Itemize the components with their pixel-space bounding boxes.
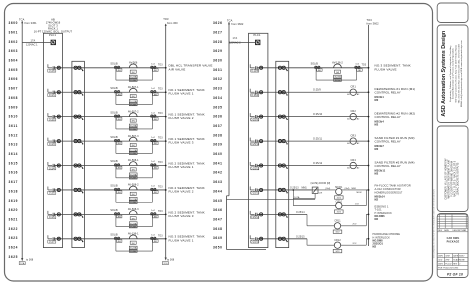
svg-text:SOL/B: SOL/B bbox=[110, 87, 118, 90]
svg-text:EMAIL: info@asdsystemsdesign.c: EMAIL: info@asdsystemsdesign.com WEB: ww… bbox=[460, 40, 463, 107]
svg-text:3608: 3608 bbox=[9, 96, 19, 100]
svg-text:[H]: [H] bbox=[336, 72, 339, 74]
svg-text:CR12: CR12 bbox=[334, 239, 341, 242]
contact O:25/12 PLC output point bbox=[250, 162, 263, 170]
svg-text:CONTROL RELAY: CONTROL RELAY bbox=[375, 139, 401, 143]
svg-text:3623: 3623 bbox=[9, 236, 19, 240]
contact O:25/15 PLC output point bbox=[250, 235, 263, 243]
svg-text:[H]: [H] bbox=[132, 145, 135, 147]
svg-text:O:25/10: O:25/10 bbox=[251, 119, 260, 121]
svg-text:TO3: TO3 bbox=[158, 64, 163, 66]
terminal pair TB rung 3628 bbox=[278, 115, 287, 120]
svg-text:C/R: C/R bbox=[319, 192, 323, 194]
svg-text:CKD: CKD bbox=[438, 260, 443, 262]
node wire label O:25/9 bbox=[313, 89, 321, 92]
junction rung 3630 to TO3 rail bbox=[368, 165, 370, 167]
solenoid valve AV-507-1 bbox=[110, 86, 158, 106]
svg-text:P5-102: P5-102 bbox=[445, 264, 451, 266]
svg-text:FLSH: FLSH bbox=[130, 226, 136, 228]
node description rung 3629 bbox=[375, 136, 415, 151]
svg-text:3636: 3636 bbox=[213, 115, 223, 119]
wire left rail bottom arrow to 368 bbox=[19, 258, 34, 265]
relay coil CR12 bbox=[333, 238, 369, 253]
junction rung 3607 to TO3 rail bbox=[165, 238, 167, 240]
solenoid valve AV-507-3 bbox=[110, 135, 158, 155]
svg-text:3620: 3620 bbox=[9, 208, 19, 212]
relay coil MCR1 bbox=[335, 186, 370, 200]
contact O:3/1 PLC output point bbox=[48, 89, 61, 97]
svg-text:3634: 3634 bbox=[213, 96, 223, 100]
svg-text:3641: 3641 bbox=[213, 161, 223, 165]
svg-text:RACK 1 SLOT 3 / RACK 2 SLOT 5: RACK 1 SLOT 3 / RACK 2 SLOT 5 bbox=[453, 160, 456, 197]
terminal pair TB rung 3631 bbox=[278, 188, 287, 193]
svg-text:3637: 3637 bbox=[213, 124, 223, 128]
svg-text:3612: 3612 bbox=[9, 133, 19, 137]
svg-text:O:25/14: O:25/14 bbox=[296, 212, 305, 214]
node description rung 3600 bbox=[169, 64, 213, 72]
svg-text:3607: 3607 bbox=[9, 87, 19, 91]
wire number column 3600-3625 bbox=[9, 21, 19, 259]
contact O:3/6 PLC output point bbox=[48, 211, 61, 219]
svg-text:[H]: [H] bbox=[132, 218, 135, 220]
svg-text:3628: 3628 bbox=[213, 40, 223, 44]
wire jog down to coil CR11 bbox=[307, 214, 334, 225]
wire rung 3632 right ladder bbox=[257, 213, 307, 215]
svg-text:3640: 3640 bbox=[213, 152, 223, 156]
svg-text:3609: 3609 bbox=[9, 105, 19, 109]
solenoid valve AV-507-2 bbox=[110, 110, 158, 130]
svg-text:O:25/15: O:25/15 bbox=[251, 242, 260, 244]
svg-text:3648: 3648 bbox=[213, 227, 223, 231]
node description rung 3630 bbox=[375, 161, 415, 176]
svg-text:FLUSH VALVE 2: FLUSH VALVE 2 bbox=[169, 116, 194, 120]
svg-text:O:3/1: O:3/1 bbox=[49, 95, 56, 97]
node TO3 tick rung 3601 bbox=[158, 89, 163, 91]
fuse F2 right feed bbox=[255, 40, 260, 45]
relay coil CR10 bbox=[335, 190, 369, 214]
terminal pair TB rung 3633 bbox=[278, 237, 287, 242]
svg-text:3635: 3635 bbox=[213, 105, 223, 109]
svg-text:WASTEWATER TREATMENT PLANT: WASTEWATER TREATMENT PLANT bbox=[447, 159, 450, 199]
svg-text:JPW: JPW bbox=[445, 260, 449, 262]
svg-text:TO3: TO3 bbox=[158, 113, 163, 115]
title block company box ASD Automation Systems Design bbox=[437, 25, 468, 123]
junction rung 3605 to TO3 rail bbox=[165, 189, 167, 191]
title block project box bbox=[437, 126, 468, 212]
svg-text:[H]: [H] bbox=[132, 170, 135, 172]
transistor Q1 overload symbol bbox=[312, 187, 336, 199]
wire rung 3626 right ladder bbox=[257, 67, 368, 69]
svg-text:3610: 3610 bbox=[9, 115, 19, 119]
terminal pair TB rung 3630 bbox=[278, 164, 287, 169]
wire right rail MCR controlled offset segment bbox=[227, 196, 267, 250]
svg-text:TO3: TO3 bbox=[158, 186, 163, 188]
wire rung 3627 right ladder bbox=[257, 91, 368, 93]
node description rung 3628 bbox=[375, 112, 416, 127]
PLC rack module label AB 1746-OW16 bbox=[34, 18, 73, 34]
node TO3 tick rung 3600 bbox=[158, 64, 163, 66]
svg-text:CR3: CR3 bbox=[351, 135, 357, 138]
wire rung 3601 left ladder bbox=[54, 91, 166, 93]
op module PLC1 right output card box bbox=[249, 33, 268, 248]
svg-text:120VAC 2: 120VAC 2 bbox=[229, 42, 241, 45]
svg-text:O:3/7: O:3/7 bbox=[49, 242, 56, 244]
svg-text:3629: 3629 bbox=[213, 49, 223, 53]
wire rung 3606 left ladder bbox=[54, 213, 166, 215]
svg-text:3626: 3626 bbox=[213, 21, 223, 25]
node wire label O:25/14 bbox=[296, 212, 305, 214]
svg-text:O:25/13: O:25/13 bbox=[290, 188, 299, 190]
junction rung 3603 to TO3 rail bbox=[165, 140, 167, 142]
node description rung 3604 bbox=[169, 161, 205, 169]
node wire label O:25/15 bbox=[296, 236, 305, 238]
solenoid valve AV-136-1 bbox=[110, 233, 158, 253]
svg-text:3649: 3649 bbox=[213, 236, 223, 240]
node description rung 3626 bbox=[375, 64, 411, 72]
wire rung 3605 left ladder bbox=[54, 189, 166, 191]
contact O:25/14 PLC output point bbox=[250, 211, 263, 219]
node description rung 3602 bbox=[169, 113, 205, 121]
junction rung 3601 to TO3 rail bbox=[165, 91, 167, 93]
svg-text:AIR VALVE: AIR VALVE bbox=[169, 67, 186, 71]
svg-text:to 368: to 368 bbox=[26, 259, 34, 262]
svg-text:3611: 3611 bbox=[9, 124, 18, 128]
svg-text:from 3451: from 3451 bbox=[25, 21, 38, 25]
svg-text:O:3/2: O:3/2 bbox=[49, 119, 56, 121]
svg-text:3631: 3631 bbox=[213, 68, 223, 72]
svg-text:A-012 CONDUCTOR: A-012 CONDUCTOR bbox=[375, 187, 401, 191]
svg-text:TCA: TCA bbox=[20, 262, 25, 265]
wire seal-in branch CR10 bbox=[293, 189, 336, 205]
svg-text:8/4/17: 8/4/17 bbox=[459, 256, 464, 258]
node wire labels O:25/13 MM1 bbox=[290, 182, 331, 190]
node TO3 source label left return rail bbox=[163, 17, 178, 26]
solenoid valve AV-506 bbox=[110, 62, 158, 82]
svg-text:3618: 3618 bbox=[9, 189, 19, 193]
svg-text:FLSH: FLSH bbox=[130, 153, 136, 155]
svg-text:(GATE) DOOR [M]: (GATE) DOOR [M] bbox=[311, 182, 331, 185]
wire rung 3603 left ladder bbox=[54, 140, 166, 142]
svg-text:from 3602: from 3602 bbox=[231, 22, 244, 26]
svg-text:3615: 3615 bbox=[9, 161, 19, 165]
solenoid valve AV-136-2 bbox=[311, 62, 363, 82]
wire rung 3604 left ladder bbox=[54, 165, 166, 167]
node wire label O:25/12 bbox=[313, 162, 323, 165]
svg-text:3606: 3606 bbox=[9, 77, 19, 81]
svg-text:O:25/11: O:25/11 bbox=[251, 144, 260, 146]
svg-text:DATE: DATE bbox=[453, 255, 459, 258]
relay coil CR11 bbox=[333, 213, 369, 233]
svg-text:M2: M2 bbox=[375, 199, 379, 202]
svg-text:FLUSH VALVE 2: FLUSH VALVE 2 bbox=[169, 189, 194, 193]
wire left return rail bottom arrow to 368 bbox=[162, 258, 174, 266]
svg-text:FLSH: FLSH bbox=[130, 80, 136, 82]
svg-text:DWG: DWG bbox=[438, 264, 443, 266]
svg-text:MJ/M: MJ/M bbox=[357, 192, 362, 194]
svg-text:PLC1: PLC1 bbox=[49, 33, 56, 37]
terminal pair TB rung 3602 bbox=[74, 115, 83, 120]
svg-text:3638: 3638 bbox=[213, 133, 223, 137]
node TO3 tick rung 3605 bbox=[158, 186, 163, 188]
svg-text:3619: 3619 bbox=[9, 199, 19, 203]
svg-text:M2: M2 bbox=[375, 122, 379, 126]
svg-text:3616: 3616 bbox=[9, 171, 19, 175]
wire number column 3626-3650 bbox=[213, 21, 223, 249]
solenoid valve AV-508-2 bbox=[110, 184, 158, 204]
svg-text:SOL/B: SOL/B bbox=[311, 63, 319, 66]
svg-text:FILE: P5102-OUT.DWG: FILE: P5102-OUT.DWG bbox=[438, 268, 459, 270]
contact O:3/4 PLC output point bbox=[48, 162, 61, 170]
junction rung 3606 to TO3 rail bbox=[165, 213, 167, 215]
node TO3 source label right return rail bbox=[367, 18, 380, 25]
node description rung 3633 bbox=[373, 233, 401, 248]
node description rung 3603 bbox=[169, 137, 205, 145]
svg-text:PACKAGE: PACKAGE bbox=[447, 240, 460, 243]
svg-text:P2 OF 10: P2 OF 10 bbox=[447, 272, 463, 276]
node wire label O:25/10 bbox=[313, 113, 323, 116]
contact O:25/13 PLC output point bbox=[250, 186, 263, 194]
svg-text:[H]: [H] bbox=[132, 121, 135, 123]
svg-text:3603: 3603 bbox=[9, 49, 19, 53]
svg-text:FLUSH VALVE 3: FLUSH VALVE 3 bbox=[169, 214, 194, 218]
svg-text:[H]: [H] bbox=[132, 72, 135, 74]
svg-text:M2: M2 bbox=[375, 171, 379, 175]
wire rung 3628 right ladder bbox=[257, 116, 368, 118]
svg-text:[H]: [H] bbox=[132, 243, 135, 245]
svg-text:107A: 107A bbox=[294, 196, 300, 199]
junction rung 3626 to TO3 rail bbox=[368, 67, 370, 69]
svg-text:FLUSH VALVE: FLUSH VALVE bbox=[375, 67, 397, 71]
contact O:3/0 PLC output point bbox=[48, 64, 61, 72]
contact O:3/7 PLC output point bbox=[48, 235, 61, 243]
relay coil CR4 bbox=[347, 159, 360, 169]
svg-text:CONTROL RELAY: CONTROL RELAY bbox=[375, 164, 401, 168]
node description rung 3627 bbox=[375, 87, 416, 102]
svg-text:O:25/11: O:25/11 bbox=[313, 137, 323, 140]
terminal block right TB box bbox=[276, 61, 289, 247]
svg-text:O:25/9: O:25/9 bbox=[313, 89, 321, 92]
svg-text:CR11: CR11 bbox=[334, 219, 341, 222]
wire rung 3602 left ladder bbox=[54, 116, 166, 118]
terminal block left TB box bbox=[72, 61, 85, 247]
svg-text:3643: 3643 bbox=[213, 180, 223, 184]
svg-text:O:25/8: O:25/8 bbox=[251, 71, 259, 73]
svg-text:M2: M2 bbox=[375, 147, 379, 151]
svg-text:TCA: TCA bbox=[19, 17, 25, 21]
relay coil CR2 bbox=[347, 110, 360, 120]
svg-text:3621: 3621 bbox=[9, 217, 19, 221]
wire rung 3629 right ladder bbox=[257, 140, 368, 142]
svg-text:DATE: DATE bbox=[444, 229, 450, 232]
svg-text:3650: 3650 bbox=[213, 246, 223, 250]
svg-text:CR4: CR4 bbox=[351, 159, 357, 162]
relay coil CR1 bbox=[347, 86, 360, 96]
contact O:3/5 PLC output point bbox=[48, 186, 61, 194]
svg-text:FLUSH VALVE 1: FLUSH VALVE 1 bbox=[169, 92, 194, 96]
terminal pair TB rung 3607 bbox=[74, 237, 83, 242]
svg-text:[H]: [H] bbox=[132, 96, 135, 98]
fuse F1 left feed bbox=[51, 40, 56, 45]
node TCA source label left rail bbox=[19, 17, 37, 25]
svg-text:NONE: NONE bbox=[459, 260, 465, 262]
svg-text:(2b4): (2b4) bbox=[325, 188, 330, 190]
svg-text:O:25/9: O:25/9 bbox=[251, 95, 259, 97]
svg-text:FLSH: FLSH bbox=[130, 178, 136, 180]
contact O:25/9 PLC output point bbox=[250, 89, 263, 97]
wire rung 3607 left ladder bbox=[54, 238, 166, 240]
wire left feed 120VAC 1 bbox=[22, 39, 51, 46]
terminal pair TB rung 3632 bbox=[278, 213, 287, 218]
svg-text:O:3/4: O:3/4 bbox=[49, 168, 56, 170]
svg-text:2: 2 bbox=[459, 264, 460, 266]
svg-text:FLSH: FLSH bbox=[130, 104, 136, 106]
svg-text:Engineering, Software, and Sys: Engineering, Software, and Systems Integ… bbox=[449, 45, 452, 102]
svg-text:3604: 3604 bbox=[9, 59, 19, 63]
wire rung 3600 left ladder bbox=[54, 67, 166, 69]
svg-text:3639: 3639 bbox=[213, 143, 223, 147]
node TCA source label right rail bbox=[227, 19, 244, 26]
node description rung 3601 bbox=[169, 88, 205, 96]
svg-text:TO3: TO3 bbox=[158, 89, 163, 91]
svg-text:FLUSH VALVE 1: FLUSH VALVE 1 bbox=[169, 165, 194, 169]
terminal pair TB rung 3626 bbox=[278, 66, 287, 71]
svg-text:O:3/0: O:3/0 bbox=[49, 71, 56, 73]
svg-text:3633: 3633 bbox=[213, 87, 223, 91]
junction rung 3627 to TO3 rail bbox=[368, 91, 370, 93]
svg-text:O:25/12: O:25/12 bbox=[313, 162, 323, 165]
svg-text:O:3/3: O:3/3 bbox=[49, 144, 56, 146]
svg-text:TO3: TO3 bbox=[158, 235, 163, 237]
svg-text:SOL/B: SOL/B bbox=[110, 160, 118, 163]
svg-text:Industrial Automation and Proc: Industrial Automation and Process Contro… bbox=[451, 48, 454, 99]
wire left return rail TO3 bbox=[165, 24, 167, 258]
svg-text:3645: 3645 bbox=[213, 199, 223, 203]
svg-text:3617: 3617 bbox=[9, 180, 19, 184]
wire rung 3633 right ladder bbox=[257, 238, 307, 240]
svg-text:CONTROL RELAY: CONTROL RELAY bbox=[375, 91, 401, 95]
svg-text:3642: 3642 bbox=[213, 171, 223, 175]
svg-text:FLSH: FLSH bbox=[335, 80, 341, 82]
svg-text:3600: 3600 bbox=[9, 21, 19, 25]
svg-text:3613: 3613 bbox=[9, 143, 19, 147]
node TO3 tick rung 3606 bbox=[158, 211, 163, 213]
terminal pair TB rung 3603 bbox=[74, 139, 83, 144]
wire right return rail TO3 bbox=[368, 25, 370, 246]
svg-text:ASD Automation Systems Design: ASD Automation Systems Design bbox=[441, 31, 447, 117]
wire right rail TCA bbox=[228, 22, 230, 196]
wire 107A feed line below MCR rung bbox=[227, 198, 316, 200]
svg-text:CUSTOMER: VILLAGE OF HOMER NY: CUSTOMER: VILLAGE OF HOMER NY bbox=[444, 158, 447, 200]
svg-text:TO3: TO3 bbox=[362, 64, 367, 66]
svg-text:from 3602: from 3602 bbox=[367, 21, 380, 25]
svg-text:SOL/B: SOL/B bbox=[110, 185, 118, 188]
svg-text:PLC1: PLC1 bbox=[253, 33, 260, 37]
node TO3 tick rung 3602 bbox=[158, 113, 163, 115]
terminal pair TB rung 3605 bbox=[74, 188, 83, 193]
svg-text:17A: 17A bbox=[233, 37, 238, 40]
node TO3 tick rung 3626 bbox=[362, 64, 367, 66]
svg-text:CONTROL RELAY: CONTROL RELAY bbox=[375, 115, 401, 119]
node description rung 3606 bbox=[169, 210, 205, 218]
terminal pair TB rung 3600 bbox=[74, 66, 83, 71]
svg-text:TO3: TO3 bbox=[158, 162, 163, 164]
node TO3 tick rung 3607 bbox=[158, 235, 163, 237]
wire jog down to coil CR12 bbox=[307, 239, 334, 245]
node TO3 tick rung 3603 bbox=[158, 138, 163, 140]
svg-text:3601: 3601 bbox=[9, 30, 19, 34]
svg-text:from 360: from 360 bbox=[167, 21, 178, 25]
contact O:25/11 PLC output point bbox=[250, 138, 263, 146]
svg-text:3632: 3632 bbox=[213, 77, 223, 81]
svg-text:SOL/B: SOL/B bbox=[110, 234, 118, 237]
relay coil CR3 bbox=[347, 135, 360, 145]
svg-text:3614: 3614 bbox=[9, 152, 19, 156]
svg-text:FLSH: FLSH bbox=[130, 251, 136, 253]
svg-text:17A: 17A bbox=[31, 39, 36, 42]
svg-text:FLSH: FLSH bbox=[130, 129, 136, 131]
svg-text:PLC OUTPUT WIRING DIAGRAM: PLC OUTPUT WIRING DIAGRAM bbox=[450, 161, 453, 197]
junction rung 3628 to TO3 rail bbox=[368, 116, 370, 118]
svg-text:O:25/12: O:25/12 bbox=[251, 168, 260, 170]
svg-text:3602: 3602 bbox=[9, 40, 19, 44]
svg-text:TEL: (607) 555-0134 FAX: (607: TEL: (607) 555-0134 FAX: (607) 555-0135 … bbox=[457, 43, 460, 103]
svg-text:HOMER/LOGGER/2017: HOMER/LOGGER/2017 bbox=[375, 191, 403, 194]
wire rung 3630 right ladder bbox=[257, 165, 368, 167]
svg-text:O:25/10: O:25/10 bbox=[313, 113, 323, 116]
solenoid valve AV-508-1 bbox=[110, 159, 158, 179]
svg-text:(2b4): (2b4) bbox=[345, 188, 350, 190]
svg-text:120VAC 1: 120VAC 1 bbox=[26, 44, 38, 47]
contact O:25/8 PLC output point bbox=[250, 64, 263, 72]
title block revision and drawing info box bbox=[437, 214, 468, 278]
wire rung 3631 right ladder bbox=[257, 189, 312, 191]
svg-text:O:3/5: O:3/5 bbox=[49, 193, 56, 195]
svg-text:O:25/13: O:25/13 bbox=[251, 193, 260, 195]
svg-text:FLUSH VALVE 1: FLUSH VALVE 1 bbox=[169, 238, 194, 242]
svg-text:DWN: DWN bbox=[438, 256, 443, 258]
svg-text:CR1: CR1 bbox=[351, 86, 357, 89]
node TO3 tick rung 3604 bbox=[158, 162, 163, 164]
svg-text:CR2: CR2 bbox=[351, 110, 357, 113]
svg-text:O:25/14: O:25/14 bbox=[251, 217, 260, 219]
svg-text:MM1: MM1 bbox=[302, 188, 308, 190]
wire left rail TCA bbox=[21, 21, 23, 258]
node description rung 3632 bbox=[375, 204, 393, 221]
junction rung 3602 to TO3 rail bbox=[165, 116, 167, 118]
junction rung 3600 to TO3 rail bbox=[165, 67, 167, 69]
contact O:3/2 PLC output point bbox=[48, 113, 61, 121]
svg-text:3630: 3630 bbox=[213, 59, 223, 63]
svg-text:[H]: [H] bbox=[132, 194, 135, 196]
junction rung 3629 to TO3 rail bbox=[368, 140, 370, 142]
svg-text:TO3: TO3 bbox=[367, 18, 373, 22]
svg-text:SOL/B: SOL/B bbox=[110, 63, 118, 66]
svg-text:TO3: TO3 bbox=[163, 17, 169, 21]
junction rung 3604 to TO3 rail bbox=[165, 165, 167, 167]
solenoid valve AV-508-3 bbox=[110, 208, 158, 228]
terminal pair TB rung 3629 bbox=[278, 139, 287, 144]
svg-text:TO3: TO3 bbox=[158, 138, 163, 140]
svg-text:3624: 3624 bbox=[9, 246, 19, 250]
terminal pair TB rung 3606 bbox=[74, 213, 83, 218]
svg-text:SOL/B: SOL/B bbox=[110, 136, 118, 139]
svg-text:SOL/B: SOL/B bbox=[110, 111, 118, 114]
wire right feed 120VAC 2 bbox=[229, 37, 256, 45]
svg-text:3605: 3605 bbox=[9, 68, 19, 72]
svg-text:M2: M2 bbox=[375, 98, 379, 102]
svg-text:FLSH: FLSH bbox=[130, 202, 136, 204]
node description rung 3631 bbox=[375, 184, 411, 202]
